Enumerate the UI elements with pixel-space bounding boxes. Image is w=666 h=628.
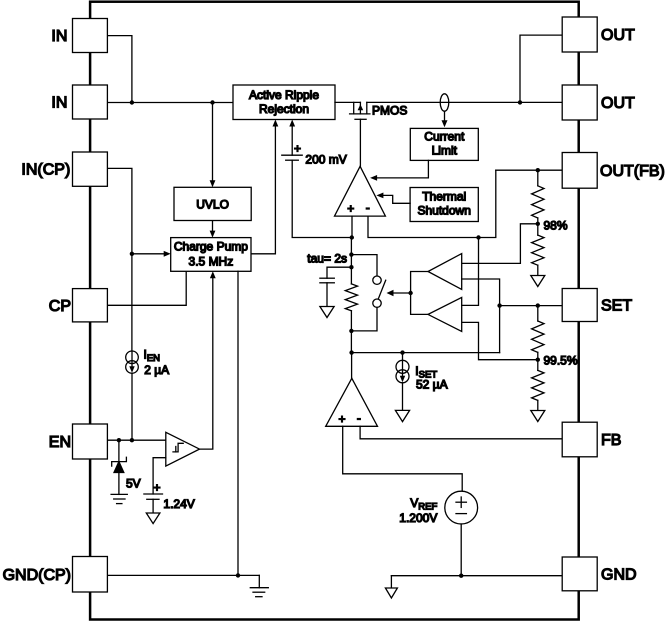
current source IEN bbox=[126, 351, 139, 364]
pin GND bbox=[562, 557, 597, 591]
op-amp reference buffer bbox=[351, 353, 353, 379]
wire ARR to PMOS rail bbox=[335, 101, 360, 103]
wire SET to R3 bbox=[537, 306, 539, 321]
node zener branch bbox=[117, 438, 121, 442]
node ISET branch bbox=[400, 350, 404, 354]
node switch branch top bbox=[349, 252, 353, 256]
wire PMOS gate to error amp output bbox=[359, 119, 361, 166]
wire error amp + input bbox=[351, 216, 353, 237]
svg-text:FB: FB bbox=[601, 432, 621, 449]
wire PMOS drain rail to OUT bbox=[367, 101, 562, 103]
wire EN comparator output to charge pump with arrow bbox=[200, 274, 213, 449]
svg-text:200 mV: 200 mV bbox=[305, 153, 346, 167]
resistor R5 soft-start bbox=[345, 284, 357, 311]
node junction IN rail at x212.5 bbox=[210, 100, 214, 104]
wire charge pump input arrow bbox=[132, 253, 168, 255]
voltage source VREF 1.200V bbox=[445, 491, 478, 524]
wire comparator U3 upper input from OUT(FB) bbox=[462, 238, 479, 306]
wire soft-start rail bbox=[350, 238, 352, 284]
pin CP bbox=[73, 289, 108, 322]
node OUT(FB) sense branch bbox=[476, 235, 480, 239]
wire IN1 to IN rail jog bbox=[107, 36, 131, 103]
svg-text:EN: EN bbox=[49, 434, 71, 451]
svg-text:GND(CP): GND(CP) bbox=[3, 567, 71, 584]
comparator EN Schmitt bbox=[166, 432, 200, 466]
ground earth GND(CP) bbox=[258, 575, 260, 587]
pin OUT(FB) bbox=[562, 153, 597, 189]
block Thermal Shutdown bbox=[410, 188, 478, 222]
wire Current Limit to error amp with arrow bbox=[373, 160, 428, 178]
current sense ellipse bbox=[440, 94, 449, 111]
wire VREF to GND line bbox=[460, 524, 462, 576]
svg-text:98%: 98% bbox=[544, 218, 568, 232]
node VREF ground junction bbox=[459, 574, 463, 578]
svg-text:GND: GND bbox=[601, 567, 637, 584]
op-amp error amplifier bbox=[335, 166, 386, 216]
battery 1.24V bbox=[144, 493, 163, 495]
svg-text:OUT: OUT bbox=[601, 95, 635, 112]
switch S1 fast-charge bbox=[373, 276, 381, 284]
svg-text:+: + bbox=[294, 142, 301, 156]
svg-text:-: - bbox=[357, 411, 361, 425]
wire switch bottom branch bbox=[351, 307, 377, 331]
wire R2 to ground bbox=[537, 265, 539, 275]
pin GND(CP) bbox=[73, 557, 108, 593]
node 99.5% tap bbox=[536, 358, 540, 362]
wire 1.24V to ground bbox=[152, 499, 154, 513]
node switch branch bottom bbox=[349, 329, 353, 333]
wire charge pump output to ARR with arrow bbox=[251, 123, 275, 254]
svg-text:+: + bbox=[347, 202, 354, 216]
svg-text:IN(CP): IN(CP) bbox=[21, 162, 70, 179]
svg-text:-: - bbox=[366, 201, 370, 215]
node SET line left junction bbox=[497, 303, 501, 307]
wire EN pin line bbox=[107, 439, 165, 441]
wire IN(CP) to charge-pump column bbox=[107, 168, 131, 351]
battery 200 mV bbox=[282, 154, 302, 156]
wire comparator U2 lower input from SET bbox=[462, 279, 500, 353]
wire capacitor branch bbox=[327, 267, 351, 278]
wire GND pin line bbox=[391, 575, 562, 577]
ground signal arrow below capacitor bbox=[320, 307, 334, 318]
svg-text:IN: IN bbox=[51, 95, 67, 112]
current source ISET bbox=[402, 353, 404, 378]
wire switch control arrow bbox=[390, 292, 411, 294]
svg-text:CP: CP bbox=[49, 298, 71, 315]
wire charge pump ground return bbox=[237, 271, 239, 575]
ground signal arrow below 1.24V bbox=[146, 513, 160, 524]
wire battery to error amp + node bbox=[292, 160, 351, 237]
svg-text:1.24V: 1.24V bbox=[163, 497, 194, 511]
svg-text:IN: IN bbox=[51, 28, 67, 45]
pin IN 2 bbox=[73, 85, 108, 119]
svg-text:3.5 MHz: 3.5 MHz bbox=[189, 255, 234, 269]
node junction rail to OUT bbox=[518, 100, 522, 104]
block Current Limit bbox=[410, 128, 478, 160]
node comparator output junction bbox=[408, 291, 412, 295]
pin EN bbox=[73, 424, 108, 459]
svg-text:OUT(FB): OUT(FB) bbox=[600, 163, 665, 180]
pin IN(CP) bbox=[73, 152, 108, 186]
wire 98% tap to comparator input bbox=[462, 224, 538, 264]
ground signal arrow below R4 bbox=[531, 411, 545, 422]
svg-text:Active Ripple: Active Ripple bbox=[249, 88, 319, 102]
node capacitor branch bbox=[349, 265, 353, 269]
node OUT(FB) divider tap bbox=[536, 168, 540, 172]
block Active Ripple Rejection bbox=[233, 85, 335, 120]
svg-text:+: + bbox=[154, 481, 161, 495]
wire battery 200mV to ARR with arrow bbox=[291, 123, 293, 156]
svg-text:2 µA: 2 µA bbox=[144, 363, 169, 377]
wire R3 to 99.5% node bbox=[537, 352, 539, 370]
wire IEN to EN node bbox=[131, 373, 133, 440]
comparator U3 bottom 99.5% bbox=[428, 297, 462, 331]
svg-text:Limit: Limit bbox=[432, 143, 458, 157]
wire IN2 to Active Ripple Rejection rail bbox=[107, 102, 233, 104]
svg-text:IEN: IEN bbox=[144, 348, 161, 364]
wire OUT(FB) line bbox=[496, 169, 562, 171]
svg-text:PMOS: PMOS bbox=[372, 104, 407, 118]
pin IN 1 bbox=[73, 19, 108, 53]
pin FB bbox=[562, 422, 597, 457]
wire OUT1 jog to rail bbox=[520, 35, 562, 102]
svg-text:Rejection: Rejection bbox=[259, 102, 309, 116]
node junction charge pump input bbox=[130, 252, 134, 256]
svg-text:tau= 2s: tau= 2s bbox=[307, 251, 347, 265]
resistor R3 top of 99.5% divider bbox=[532, 321, 544, 352]
diode D1 zener 5V bbox=[118, 440, 120, 461]
wire sense to Current Limit with arrow bbox=[444, 111, 446, 124]
wire UVLO to Charge Pump with arrow bbox=[212, 221, 214, 235]
wire SET line bbox=[500, 305, 563, 307]
pin SET bbox=[562, 289, 597, 322]
svg-text:Charge Pump: Charge Pump bbox=[174, 240, 248, 254]
wire buffer - input to FB bbox=[360, 426, 562, 439]
transistor PMOS pass element bbox=[353, 102, 355, 114]
wire capacitor to ground bbox=[326, 283, 328, 307]
wire UVLO feed with arrow bbox=[212, 103, 214, 185]
wire error amp - input to OUT(FB) bbox=[368, 170, 496, 237]
wire SET rail horizontal bbox=[352, 352, 500, 354]
node 98% tap bbox=[536, 222, 540, 226]
wire OUT(FB) to R1 bbox=[537, 170, 539, 186]
block Charge Pump 3.5 MHz bbox=[171, 238, 251, 272]
wire buffer + input to VREF bbox=[343, 426, 463, 491]
svg-text:SET: SET bbox=[601, 298, 632, 315]
ground signal arrow below R2 bbox=[531, 276, 545, 287]
pin OUT 1 bbox=[562, 17, 597, 52]
svg-text:+: + bbox=[339, 412, 346, 426]
wire R1 to 98% node bbox=[537, 218, 539, 235]
wire switch top branch bbox=[351, 255, 377, 276]
svg-text:1.200V: 1.200V bbox=[399, 511, 437, 525]
ground earth below zener bbox=[111, 493, 127, 495]
node junction IN rail at x131.9 bbox=[130, 100, 134, 104]
wire comparator outputs bracket bbox=[411, 272, 428, 315]
resistor R4 bottom of 99.5% divider bbox=[532, 370, 544, 400]
comparator U2 top 98% bbox=[428, 254, 462, 290]
node charge pump ground junction bbox=[236, 573, 240, 577]
resistor R1 top of 98% divider bbox=[532, 186, 544, 218]
ground signal arrow left of GND pin bbox=[390, 576, 392, 588]
resistor R2 bottom of 98% divider bbox=[532, 235, 544, 265]
capacitor C1 bbox=[320, 277, 334, 279]
node SET rail left bbox=[349, 350, 353, 354]
pin OUT 2 bbox=[562, 85, 597, 120]
wire ISET to ground bbox=[402, 383, 404, 411]
wire 99.5% tap to comparator input bbox=[462, 322, 538, 359]
node error amp + / SET rail junction bbox=[350, 235, 354, 239]
node SET divider tap bbox=[536, 303, 540, 307]
svg-text:OUT: OUT bbox=[601, 27, 635, 44]
svg-text:99.5%: 99.5% bbox=[544, 353, 578, 367]
wire R4 to ground bbox=[537, 400, 539, 410]
svg-text:5V: 5V bbox=[126, 477, 141, 491]
wire CP pin to charge pump bbox=[107, 271, 186, 305]
node IEN branch on EN line bbox=[130, 438, 134, 442]
svg-text:Thermal: Thermal bbox=[422, 189, 466, 203]
wire R5 to rail bottom bbox=[350, 311, 352, 353]
svg-text:52 µA: 52 µA bbox=[416, 378, 448, 392]
wire GND(CP) pin line bbox=[107, 574, 259, 576]
wire Thermal Shutdown to error amp with arrow bbox=[380, 195, 411, 203]
IC boundary bbox=[90, 2, 579, 620]
svg-text:Shutdown: Shutdown bbox=[418, 203, 471, 217]
svg-text:UVLO: UVLO bbox=[196, 198, 229, 212]
svg-text:Current: Current bbox=[424, 129, 465, 143]
ground signal arrow below ISET bbox=[395, 410, 409, 421]
wire EN comparator - input to 1.24V bbox=[153, 458, 166, 494]
block UVLO bbox=[174, 187, 251, 220]
